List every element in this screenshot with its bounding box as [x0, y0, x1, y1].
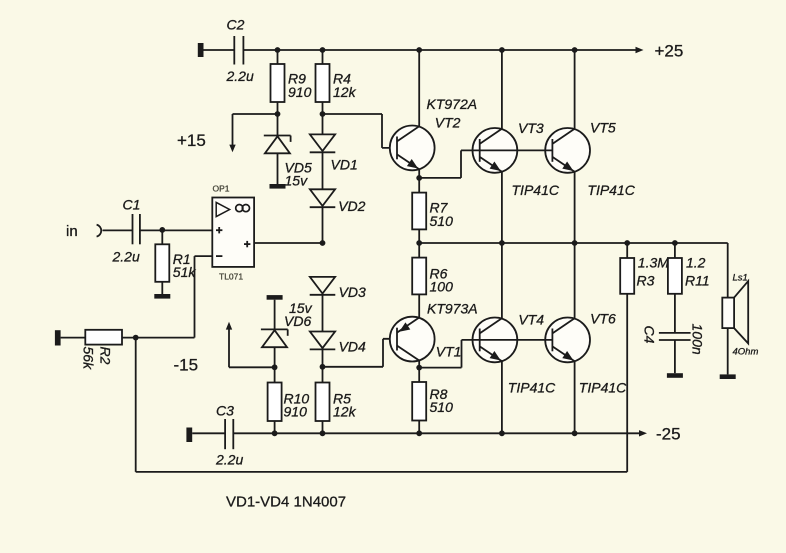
svg-text:VT4: VT4	[518, 311, 544, 327]
node op-out	[320, 240, 326, 246]
wire VT6 collector	[574, 243, 576, 318]
svg-text:TIP41C: TIP41C	[587, 182, 635, 198]
label +25	[655, 42, 684, 61]
resistor R6	[412, 258, 426, 295]
node R5-bot	[320, 430, 326, 436]
wire	[277, 102, 279, 136]
wire	[322, 421, 324, 433]
zener VD6	[261, 329, 288, 347]
label VT1	[436, 344, 462, 360]
diode VD3	[310, 277, 336, 295]
node VT1-E	[416, 365, 422, 371]
input connector	[97, 225, 102, 237]
wire	[274, 347, 276, 382]
svg-text:VD4: VD4	[339, 338, 366, 354]
resistor R7	[412, 193, 426, 230]
wire	[322, 152, 324, 189]
label KT972A	[427, 96, 478, 112]
svg-text:KT973A: KT973A	[427, 300, 478, 316]
resistor R4	[316, 64, 330, 102]
label 1.2	[686, 254, 706, 270]
label 2.2u (C2)	[226, 68, 254, 84]
svg-text:1.3M: 1.3M	[638, 254, 669, 270]
node VT4-E	[499, 430, 505, 436]
svg-text:4Ohm: 4Ohm	[733, 347, 759, 358]
wire VT4 emitter	[501, 361, 503, 433]
wire	[674, 243, 676, 258]
label R8	[430, 386, 454, 415]
arrowhead -25	[639, 430, 647, 436]
wire	[277, 153, 279, 184]
node VT3-E	[499, 240, 505, 246]
svg-text:-15: -15	[174, 356, 199, 375]
transistor VT2 KT972A	[390, 125, 435, 170]
node VD4-R5	[320, 364, 326, 370]
svg-text:Ls1: Ls1	[733, 273, 748, 284]
capacitor C3	[225, 419, 233, 449]
op-amp triangle	[216, 202, 229, 216]
wire	[274, 421, 276, 433]
svg-text:OP1: OP1	[213, 184, 230, 194]
node VT6-E	[572, 430, 578, 436]
ground (R1)	[154, 294, 170, 299]
svg-text:+15: +15	[177, 131, 206, 150]
wire	[322, 50, 324, 64]
node R4-top	[320, 47, 326, 53]
svg-text:VT5: VT5	[590, 119, 616, 135]
label C3	[216, 402, 234, 418]
label TIP41C (VT6)	[579, 379, 627, 395]
svg-text:56k: 56k	[81, 347, 97, 371]
svg-text:R3: R3	[637, 272, 655, 288]
label VD2	[338, 198, 365, 214]
wire VT2 collector	[418, 50, 420, 126]
wire VT3 emitter	[501, 172, 503, 243]
wire	[418, 243, 420, 258]
label 100n	[690, 324, 706, 355]
wire -25 rail	[233, 432, 641, 434]
label OP1	[213, 184, 230, 194]
capacitor C1	[133, 214, 140, 244]
svg-text:510: 510	[430, 399, 454, 415]
svg-text:C4: C4	[642, 326, 658, 344]
wire	[103, 229, 133, 231]
wire	[674, 294, 676, 333]
svg-text:910: 910	[284, 403, 308, 419]
wire VT1 bottom	[418, 361, 420, 383]
svg-text:C2: C2	[227, 17, 245, 33]
label TIP41C (VT5)	[587, 182, 635, 198]
label VT2	[435, 115, 461, 131]
transistor VT5 TIP41C	[545, 128, 590, 173]
label R5	[333, 390, 357, 419]
svg-text:100n: 100n	[690, 324, 706, 355]
label R11	[685, 272, 710, 288]
wire VT2 emitter	[418, 169, 420, 178]
svg-text:VD1: VD1	[331, 157, 358, 173]
svg-text:2.2u: 2.2u	[226, 68, 254, 84]
diode VD2	[310, 189, 336, 207]
node VT3-C	[499, 47, 505, 53]
svg-text:15v: 15v	[285, 173, 309, 189]
label VD1-VD4 1N4007	[226, 494, 346, 511]
wire +25 rail	[243, 49, 637, 51]
wire VT2 base	[323, 114, 405, 148]
node R10-bot	[272, 430, 278, 436]
wire VT4 collector	[501, 243, 503, 318]
wire op-amp minus	[195, 256, 213, 338]
svg-text:VT2: VT2	[435, 115, 461, 131]
wire	[322, 349, 324, 382]
capacitor C2	[234, 36, 243, 65]
label R10	[284, 390, 310, 419]
label VD3	[339, 284, 366, 300]
node R9-top	[275, 47, 281, 53]
label 2.2u (C3)	[215, 452, 243, 468]
resistor R5	[316, 383, 330, 422]
wire -15 stub	[229, 329, 275, 368]
resistor R2	[85, 330, 122, 345]
transistor VT3 TIP41C	[473, 128, 518, 173]
svg-text:+25: +25	[655, 42, 684, 61]
arrowhead +25	[636, 47, 644, 53]
resistor R10	[268, 383, 282, 422]
node R2-fb	[133, 335, 139, 341]
svg-text:VT1: VT1	[436, 344, 462, 360]
label C1	[123, 197, 141, 213]
terminal T3 (-25 input)	[186, 428, 192, 443]
svg-text:in: in	[66, 223, 78, 240]
wire	[161, 230, 163, 244]
wire to VT3 base	[419, 150, 461, 178]
label 1.3M	[638, 254, 669, 270]
node VD1-top	[320, 111, 326, 117]
label TL071	[219, 272, 243, 282]
terminal T2 (R2)	[55, 330, 61, 345]
wire VT2-VT3-VT5 base link	[461, 149, 552, 151]
label R4	[333, 71, 357, 100]
svg-text:TL071: TL071	[219, 272, 243, 282]
node VT2-C	[416, 47, 422, 53]
terminal T1 (+25 input)	[198, 43, 204, 57]
wire VT5 emitter	[574, 172, 576, 243]
svg-text:C1: C1	[123, 197, 141, 213]
label -25	[656, 425, 681, 444]
svg-text:2.2u: 2.2u	[215, 452, 243, 468]
svg-text:100: 100	[430, 278, 454, 294]
transistor VT4 TIP41C	[473, 318, 518, 363]
svg-text:KT972A: KT972A	[427, 96, 478, 112]
wire	[418, 229, 420, 243]
op-amp infinity	[236, 205, 250, 212]
svg-text:VD6: VD6	[284, 313, 311, 329]
wire	[322, 102, 324, 134]
svg-text:R2: R2	[98, 347, 114, 365]
node C1-R1	[159, 227, 165, 233]
svg-text:VD3: VD3	[339, 284, 366, 300]
label 15v (VD6)	[284, 300, 313, 329]
wire VT3 collector	[501, 50, 503, 129]
label VT6	[590, 311, 616, 327]
wire	[277, 50, 279, 64]
svg-text:12k: 12k	[333, 84, 357, 100]
wire	[61, 337, 86, 339]
svg-text:12k: 12k	[333, 403, 357, 419]
label VD1	[331, 157, 358, 173]
label 2.2u (C1)	[112, 249, 140, 265]
label +15	[177, 131, 206, 150]
svg-text:VD2: VD2	[338, 198, 365, 214]
label VT5	[590, 119, 616, 135]
wire output rail	[419, 243, 728, 298]
label R9	[288, 71, 312, 100]
ground (VD6)	[267, 295, 283, 300]
svg-text:-25: -25	[656, 425, 681, 444]
wire	[322, 295, 324, 332]
wire	[140, 229, 212, 231]
ground (Ls1)	[720, 374, 736, 379]
label TIP41C (VT4)	[508, 379, 556, 395]
wire op-amp out	[254, 242, 322, 244]
label R6	[430, 266, 454, 295]
wire VT6 emitter	[574, 361, 576, 433]
op-amp U1 OP1	[212, 198, 254, 267]
svg-text:51k: 51k	[173, 264, 197, 280]
resistor R1	[155, 244, 169, 281]
wire	[418, 178, 420, 193]
speaker Ls1	[722, 281, 748, 343]
wire	[418, 421, 420, 434]
node VT5-C	[572, 47, 578, 53]
wire to VT4 base	[419, 340, 461, 368]
label TIP41C (VT3)	[512, 182, 560, 198]
svg-text:VT6: VT6	[590, 311, 616, 327]
label VT4	[518, 311, 544, 327]
op-amp minus input	[216, 255, 222, 257]
resistor R3	[620, 258, 634, 294]
label R2	[81, 347, 114, 371]
wire	[122, 337, 195, 339]
svg-text:510: 510	[430, 213, 454, 229]
svg-text:VD1-VD4 1N4007: VD1-VD4 1N4007	[226, 494, 346, 511]
label R1	[173, 251, 197, 280]
arrowhead -15	[226, 322, 232, 330]
wire +15 stub	[233, 114, 278, 146]
op-amp plus input	[216, 227, 222, 233]
wire	[322, 207, 324, 243]
label in	[66, 223, 78, 240]
node VT2-E	[416, 175, 422, 181]
svg-text:TIP41C: TIP41C	[508, 379, 556, 395]
node R3-top	[624, 240, 630, 246]
label VD4	[339, 338, 366, 354]
resistor R9	[271, 64, 285, 102]
diode VD4	[310, 332, 336, 350]
wire	[274, 300, 276, 330]
op-amp output plus	[244, 241, 250, 247]
wire	[626, 243, 628, 258]
svg-text:TIP41C: TIP41C	[512, 182, 560, 198]
label R3	[637, 272, 655, 288]
wire	[161, 282, 163, 294]
node R8-bot	[416, 430, 422, 436]
resistor R8	[412, 382, 426, 421]
wire	[727, 328, 729, 374]
label C4	[642, 326, 658, 344]
label VT3	[518, 120, 544, 136]
wire VT1 base	[323, 339, 405, 367]
wire VT1-VT4-VT6 base link	[462, 339, 553, 341]
diode VD1	[310, 134, 336, 152]
node VD6-R10	[272, 364, 278, 370]
ground (C4)	[667, 373, 683, 378]
wire	[418, 294, 420, 317]
zener VD5	[264, 136, 291, 154]
ground (VD5)	[270, 184, 286, 189]
label R7	[430, 200, 454, 229]
svg-text:C3: C3	[216, 402, 234, 418]
wire feedback	[136, 294, 628, 472]
transistor VT6 TIP41C	[545, 318, 590, 363]
resistor R11	[668, 258, 682, 294]
node R11-top	[672, 240, 678, 246]
node R7-R6	[416, 240, 422, 246]
wire	[192, 432, 225, 434]
svg-text:1.2: 1.2	[686, 254, 706, 270]
label VD5	[285, 160, 312, 189]
svg-text:R11: R11	[685, 272, 710, 288]
svg-text:TIP41C: TIP41C	[579, 379, 627, 395]
label -15	[174, 356, 199, 375]
svg-text:VT3: VT3	[518, 120, 544, 136]
wire	[204, 49, 235, 51]
svg-text:2.2u: 2.2u	[112, 249, 140, 265]
label Ls1	[733, 273, 748, 284]
label C2	[227, 17, 245, 33]
svg-text:910: 910	[288, 84, 312, 100]
label KT973A	[427, 300, 478, 316]
arrowhead +15	[229, 145, 235, 153]
label 4Ohm	[733, 347, 759, 358]
wire	[674, 340, 676, 373]
capacitor C4	[659, 333, 691, 340]
wire VT5 collector	[574, 50, 576, 129]
transistor VT1 KT973A	[390, 317, 435, 362]
node VT5-E	[572, 240, 578, 246]
node VD5-top	[275, 111, 281, 117]
